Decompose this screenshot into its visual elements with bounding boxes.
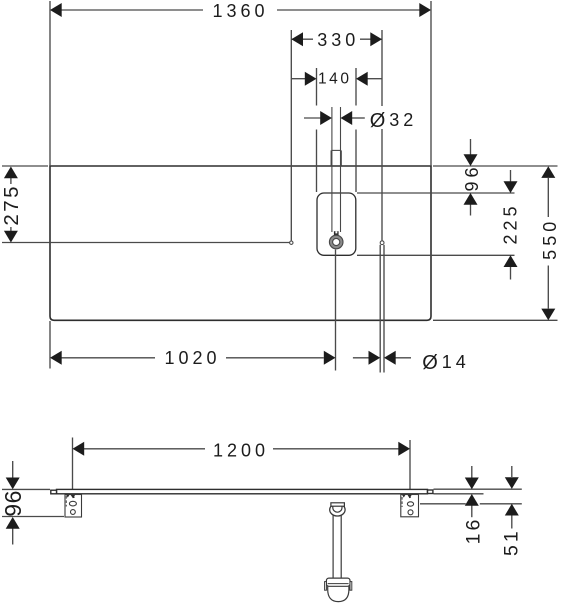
dim line O14 [353,357,369,359]
faucet supply pipe (vertical lines) [331,107,341,232]
arrows front view [6,442,519,529]
left bracket clamp teeth [66,495,75,498]
dim 96 lower vertical [12,461,14,478]
1360 arrows [50,3,62,17]
svg-text:225: 225 [500,202,520,244]
dim line 330 [291,38,313,40]
svg-text:Ø32: Ø32 [370,110,418,132]
right bracket clamp teeth [402,495,412,498]
svg-text:140: 140 [318,70,352,87]
marking dot (left) [290,241,293,244]
O14 arrows (outside) [369,351,381,365]
ext line plate top left [2,488,50,490]
right bracket hidden edge (dashed) [401,497,403,507]
dim line O32 [304,117,321,119]
faucet hole notch [334,231,339,235]
svg-text:Ø14: Ø14 [422,352,470,374]
dim line 275 (vertical bits) [10,178,12,184]
51 arrows (outside) [505,477,519,489]
ext line x=316.5 (140 left) [316,68,318,106]
O32 arrows (outside) [320,111,332,125]
O14 ext lines down [379,245,381,373]
leader 275 to dot [2,242,289,244]
svg-text:550: 550 [540,218,560,260]
16 arrows (outside) [465,478,479,490]
console plate (front view) [51,489,433,493]
left bracket hidden edge (dashed) [65,496,67,507]
trap rim inner line [328,583,349,585]
ext line x=50 below [49,321,51,369]
dim line 1200 [84,448,205,450]
ext line x=356 (140 right) [355,68,357,106]
ext line faucet centre down [335,250,337,371]
ext line y=193 (cutout top extended) [357,192,515,194]
1020 arrows [50,351,62,365]
dim line 140 [291,78,305,80]
ext line bolt axis right [420,503,466,505]
bottle trap outlet ellipse [330,504,345,516]
thin extension / dimension lines [2,1,558,373]
ext line 1200 left [72,438,74,490]
dimension texts top view [0,1,560,374]
140 arrows (outside) [305,72,317,86]
550 arrows (inside) [541,166,555,178]
trap tailpipe [333,515,341,578]
ext line x=382 (330 right, to O14 hole) [381,30,383,106]
svg-text:96: 96 [462,163,482,191]
ext line right edge up [430,1,432,166]
thin lines front view [2,438,522,545]
96 upper arrows (outside) [464,154,478,166]
ext line y=255.3 (cutout bottom extended) [357,254,515,256]
dim 550: vertical line [547,178,549,217]
washbasin console outline (top view) [50,166,431,320]
dim 96 upper: vertical line [470,139,472,155]
svg-text:16: 16 [462,517,484,545]
O14 hole [380,241,384,245]
bottle trap flange [331,503,345,506]
svg-text:1020: 1020 [164,348,220,368]
svg-text:1360: 1360 [212,1,268,21]
dim line 1020 [62,357,156,359]
svg-text:330: 330 [317,30,359,50]
bottle trap inner cup [333,506,342,512]
ext line 1200 right [409,440,411,489]
faucet hole ring (O32) [331,237,341,247]
dimension texts front view [0,441,523,556]
dim 225: vertical line [510,170,512,182]
dim 16 vertical [471,466,473,478]
trap cup rim [326,578,350,586]
dim 51 vertical [511,466,513,477]
svg-text:51: 51 [501,528,523,556]
left mounting bracket [65,495,82,518]
ext line left edge up [49,1,51,166]
275 arrows [4,167,18,179]
ext line y=166 left [2,165,48,167]
trap cup body [328,586,349,601]
right mounting bracket [401,495,419,517]
330 arrows [291,32,303,46]
ext line y=320.3 right [433,319,558,321]
dim line 1360 [56,9,203,11]
svg-text:275: 275 [0,184,23,226]
ext line bracket bottom left [2,516,64,518]
96 lower arrows (outside) [6,478,20,490]
ext line y=166 right [433,165,558,167]
arrows top view [4,3,555,365]
svg-text:1200: 1200 [213,441,269,461]
ext line plate bottom right [434,493,484,495]
svg-text:96: 96 [0,490,26,517]
225 arrows (outside) [504,181,518,193]
ext line plate top right [434,488,522,490]
trap cup tabs [325,582,327,591]
ext line x=291.3 (330 left, to dot) [290,30,292,241]
1200 arrows [73,442,85,456]
basin cutout rounded rectangle [317,193,356,255]
